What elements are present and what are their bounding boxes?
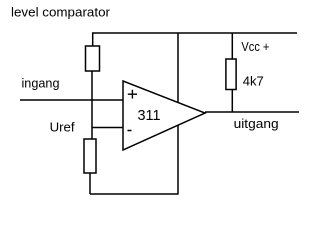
svg-text:level comparator: level comparator — [11, 4, 111, 19]
svg-text:311: 311 — [138, 107, 161, 124]
wire: Uref tap to - input — [92, 127, 123, 129]
svg-text:uitgang: uitgang — [234, 116, 279, 131]
wire: R2 bottom down — [89, 173, 91, 194]
wire: from top rail down to R3 — [231, 33, 233, 59]
svg-text:4k7: 4k7 — [243, 74, 264, 89]
wire: divider middle vertical R1 to R2 — [91, 71, 93, 139]
pin - (inverting input marker) — [128, 130, 132, 132]
svg-text:ingang: ingang — [22, 76, 60, 91]
wire: top rail Vcc — [93, 32, 297, 34]
wire: ingang input to + input — [20, 99, 123, 101]
svg-text:Uref: Uref — [50, 120, 75, 135]
wire: output from apex — [205, 111, 299, 113]
op-amp U1 comparator 311 triangle — [123, 81, 205, 150]
resistor R1 (upper divider resistor) — [86, 46, 100, 71]
resistor R3 pull-up — [226, 59, 236, 90]
wire: stub from top rail down to R1 — [92, 32, 94, 46]
resistor R2 (lower divider resistor) — [84, 139, 96, 173]
wire: bottom rail — [90, 193, 179, 195]
wire: R3 bottom to output — [231, 90, 233, 113]
svg-text:Vcc +: Vcc + — [241, 39, 269, 54]
wire: right vertical from top rail to bottom rail (behind U1) — [177, 33, 179, 194]
pin + (non-inverting input marker) — [128, 90, 137, 99]
